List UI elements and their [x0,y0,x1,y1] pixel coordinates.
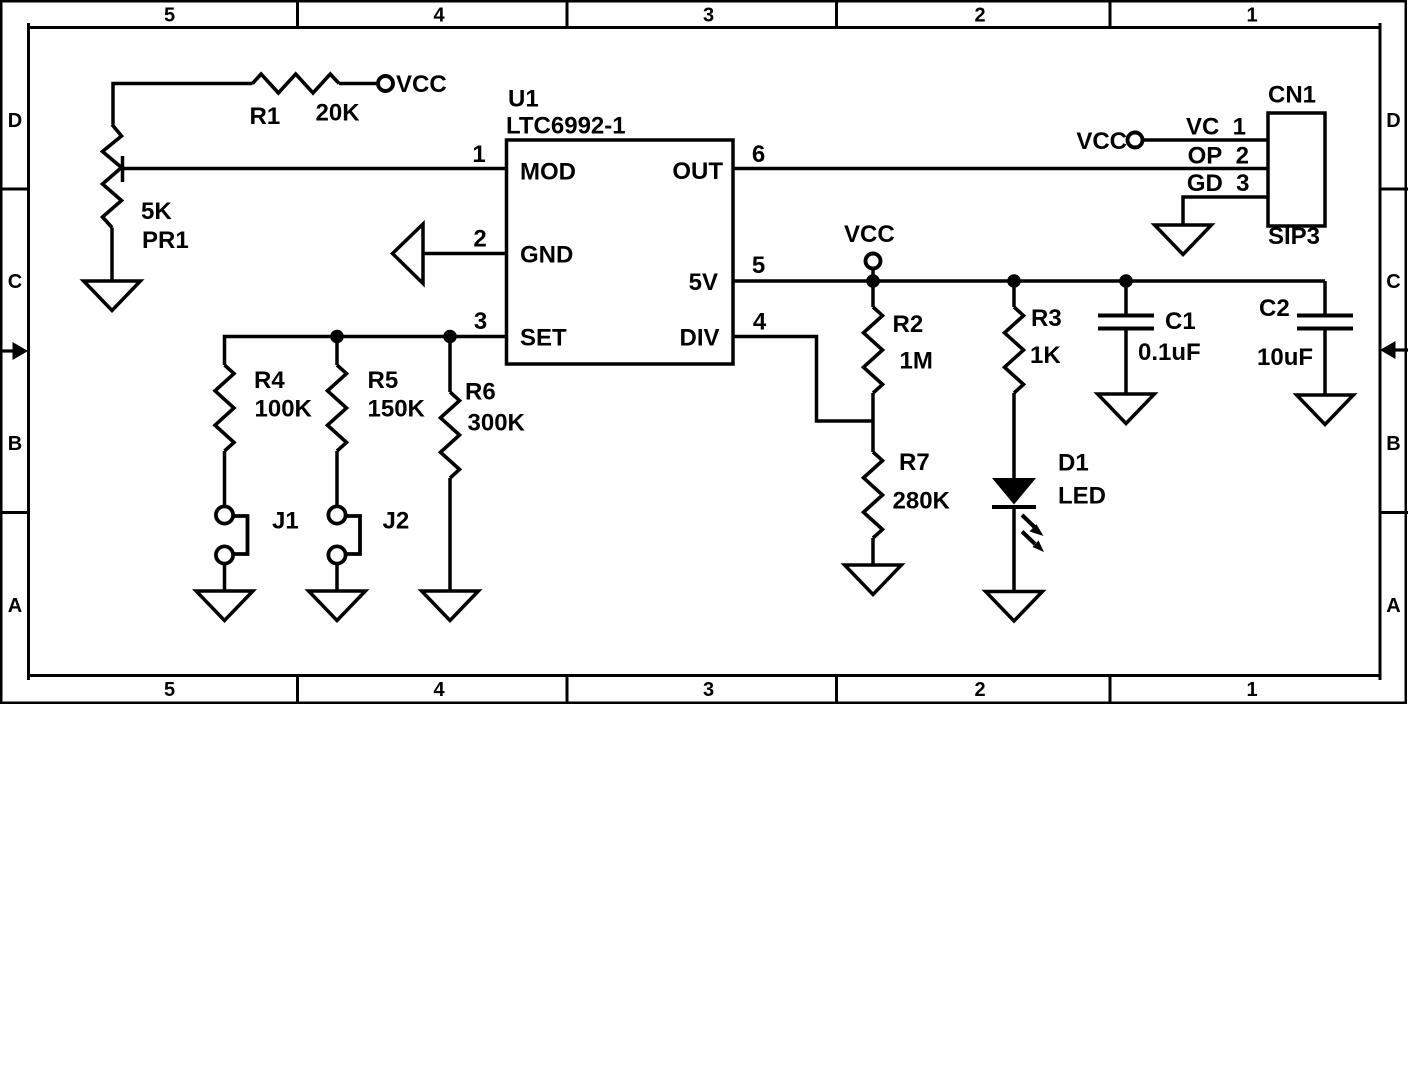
svg-text:LTC6992-1: LTC6992-1 [506,113,626,140]
svg-text:100K: 100K [255,396,313,423]
junction [866,274,880,288]
svg-text:J1: J1 [272,508,299,535]
svg-text:20K: 20K [316,100,361,127]
svg-text:J2: J2 [383,508,410,535]
capacitor C1 0.1uF [1098,316,1154,329]
svg-text:D1: D1 [1058,450,1089,477]
wire [1323,330,1327,394]
resistor R5 150K [328,365,347,451]
wire [448,478,452,590]
svg-text:4: 4 [433,5,445,27]
ground [986,592,1043,622]
wire [871,538,875,564]
wire MOD net [123,167,507,171]
junction [1007,274,1021,288]
wire DIV net [733,337,873,422]
wire [339,82,378,86]
svg-text:D: D [8,110,22,132]
wire [448,337,452,393]
svg-text:C: C [8,271,22,293]
svg-text:SET: SET [520,325,567,352]
PR1 wiper [121,156,125,182]
power VCC terminal [378,76,393,91]
LED D1 [992,478,1044,552]
svg-text:C2: C2 [1259,295,1290,322]
GND port triangle pin 2 [393,224,424,284]
svg-text:150K: 150K [368,396,426,423]
svg-text:GND: GND [520,242,573,269]
resistor R2 1M [864,307,883,393]
svg-text:R6: R6 [465,379,496,406]
wire [1323,281,1327,314]
svg-text:3: 3 [703,5,714,27]
svg-text:LED: LED [1058,483,1106,510]
svg-text:VCC: VCC [1076,128,1127,155]
svg-text:B: B [1386,433,1400,455]
svg-text:R7: R7 [899,449,930,476]
svg-text:PR1: PR1 [142,227,189,254]
wire [335,337,339,366]
svg-text:10uF: 10uF [1257,344,1313,371]
wire [871,393,875,452]
svg-text:R2: R2 [893,311,924,338]
ground [1155,225,1212,255]
svg-text:VC 1: VC 1 [1186,114,1246,141]
ground [1098,394,1155,424]
junction [1119,274,1133,288]
jumper J1 [216,506,248,563]
svg-text:C: C [1386,271,1400,293]
wire [871,281,875,307]
wire [223,564,227,592]
junction [330,330,344,344]
svg-text:3: 3 [474,308,487,335]
capacitor C2 10uF [1297,316,1353,329]
svg-text:1: 1 [1246,679,1257,701]
svg-text:280K: 280K [893,488,951,515]
wire [113,84,253,125]
svg-text:B: B [8,433,22,455]
ground [1297,395,1354,425]
svg-text:C1: C1 [1165,308,1196,335]
svg-text:1: 1 [472,141,485,168]
wire SET net [225,337,507,366]
resistor R6 300K [441,392,460,478]
ground [84,281,141,311]
svg-text:SIP3: SIP3 [1268,223,1320,250]
svg-text:R4: R4 [254,367,285,394]
svg-text:5: 5 [164,679,175,701]
wire [1183,197,1268,224]
wire [1012,393,1016,478]
power VCC terminal [866,254,881,269]
ground [422,591,479,621]
svg-text:2: 2 [974,679,985,701]
ground [196,591,253,621]
svg-text:A: A [1386,595,1400,617]
svg-text:5: 5 [164,5,175,27]
svg-text:D: D [1386,110,1400,132]
svg-text:OUT: OUT [672,158,723,185]
svg-text:300K: 300K [468,410,526,437]
ground [309,591,366,621]
wire [1012,281,1016,307]
resistor R1 [253,74,340,93]
wire [1124,281,1128,314]
svg-text:DIV: DIV [679,325,719,352]
svg-text:5V: 5V [689,269,718,296]
svg-text:VCC: VCC [396,71,447,98]
svg-text:R1: R1 [250,103,281,130]
resistor R4 100K [215,365,234,451]
wire [223,451,227,507]
svg-text:A: A [8,595,22,617]
wire [423,252,506,256]
wire [110,228,114,281]
svg-text:GD 3: GD 3 [1187,170,1250,197]
wire 5V net [733,279,1325,283]
wire OUT net [733,167,1268,171]
resistor R7 280K [864,452,883,538]
power VCC terminal [1128,133,1143,148]
svg-text:1M: 1M [900,348,933,375]
wire [1012,507,1016,591]
connector CN1 body [1268,113,1325,226]
op-amp U1 LTC6992-1 body [507,140,734,364]
wire [1124,330,1128,393]
svg-text:1: 1 [1246,5,1257,27]
svg-text:6: 6 [752,141,765,168]
junction [443,330,457,344]
svg-text:1K: 1K [1030,342,1061,369]
svg-text:2: 2 [473,226,486,253]
resistor R3 1K [1005,307,1024,393]
svg-text:VCC: VCC [844,221,895,248]
jumper J2 [328,506,360,563]
wire [335,564,339,592]
svg-text:U1: U1 [508,86,539,113]
ground [845,565,902,595]
svg-text:4: 4 [433,679,445,701]
svg-text:5: 5 [752,252,765,279]
wire [871,268,875,281]
svg-text:3: 3 [703,679,714,701]
svg-text:MOD: MOD [520,159,576,186]
svg-text:0.1uF: 0.1uF [1138,339,1201,366]
potentiometer PR1 5K [103,125,122,228]
svg-text:2: 2 [974,5,985,27]
svg-text:R3: R3 [1031,305,1062,332]
svg-text:CN1: CN1 [1268,82,1316,109]
svg-text:OP 2: OP 2 [1188,143,1249,170]
svg-text:5K: 5K [141,198,172,225]
svg-text:R5: R5 [368,367,399,394]
wire [335,451,339,507]
svg-text:4: 4 [753,309,767,336]
wire [1143,138,1268,142]
